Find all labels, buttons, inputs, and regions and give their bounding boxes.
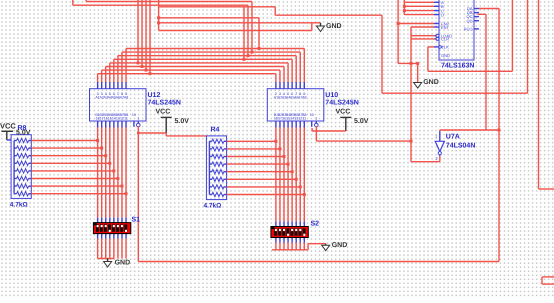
svg-text:11: 11: [302, 117, 306, 121]
svg-text:GND: GND: [423, 79, 439, 86]
svg-text:1: 1: [137, 117, 139, 121]
svg-text:5.0V: 5.0V: [16, 130, 31, 137]
svg-text:QD: QD: [467, 18, 473, 23]
svg-text:74LS04N: 74LS04N: [446, 143, 476, 150]
svg-text:19: 19: [132, 113, 136, 117]
svg-text:5.0V: 5.0V: [354, 118, 369, 125]
svg-text:1: 1: [315, 117, 317, 121]
svg-text:4.7kΩ: 4.7kΩ: [10, 201, 28, 208]
svg-text:4.7kΩ: 4.7kΩ: [204, 203, 222, 210]
svg-text:11: 11: [124, 117, 128, 121]
svg-text:D: D: [441, 12, 444, 17]
svg-text:VCC: VCC: [0, 121, 16, 130]
svg-text:U7A: U7A: [446, 134, 460, 141]
svg-text:VCC: VCC: [336, 109, 351, 116]
svg-text:A8: A8: [124, 96, 128, 100]
svg-text:A8: A8: [302, 96, 306, 100]
svg-text:RCO: RCO: [464, 27, 473, 32]
svg-text:5.0V: 5.0V: [175, 118, 190, 125]
svg-text:GND: GND: [332, 242, 348, 249]
svg-text:U12: U12: [148, 92, 161, 99]
svg-text:GND: GND: [326, 23, 342, 30]
svg-text:VCC: VCC: [156, 109, 171, 116]
svg-text:CLR: CLR: [441, 37, 449, 42]
svg-text:S1: S1: [132, 217, 141, 224]
svg-text:U10: U10: [325, 92, 338, 99]
svg-text:S2: S2: [311, 220, 320, 227]
svg-text:ENT: ENT: [441, 25, 450, 30]
svg-text:GND: GND: [441, 53, 450, 58]
svg-text:19: 19: [310, 113, 314, 117]
svg-text:74LS163N: 74LS163N: [441, 63, 474, 70]
svg-text:74LS245N: 74LS245N: [325, 100, 358, 107]
svg-text:R4: R4: [211, 126, 220, 133]
svg-text:74LS245N: 74LS245N: [148, 100, 181, 107]
svg-text:GND: GND: [115, 260, 131, 267]
